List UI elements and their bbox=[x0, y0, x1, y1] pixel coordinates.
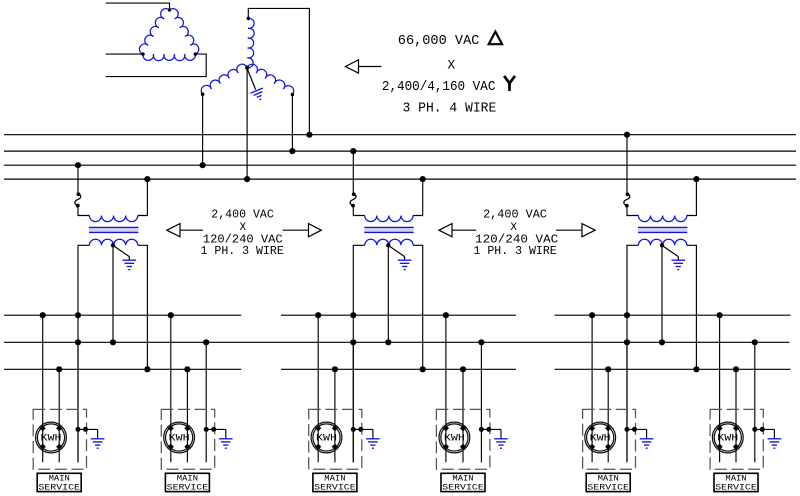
wire: meter 2 line L1 drop bbox=[170, 315, 172, 462]
junction: T3 primary neutral on neutral bus bbox=[693, 176, 699, 182]
wire: 66kV line lead C to delta lower-right bbox=[106, 54, 207, 77]
junction: T3 L2 lead on LV bus L2 bbox=[693, 366, 699, 372]
main service box 5 bbox=[586, 473, 630, 491]
junction: meter 3 L1 on LV bus L1 bbox=[315, 312, 321, 318]
junction: phase B lead on bus C bbox=[200, 162, 206, 168]
ground: wye neutral point earth ground bbox=[250, 88, 266, 102]
svg-text:2,400/4,160 VAC: 2,400/4,160 VAC bbox=[382, 79, 496, 95]
svg-text:2,400 VAC: 2,400 VAC bbox=[483, 208, 547, 221]
transformer wye winding phase B coil bbox=[201, 64, 247, 94]
wire: HV distribution bus phase A bbox=[4, 134, 796, 136]
svg-text:SERVICE: SERVICE bbox=[715, 483, 757, 492]
node: delta lower-right terminal bbox=[194, 52, 197, 55]
fuse cutout T3 bbox=[624, 194, 630, 206]
wire: meter 6 line L2 drop bbox=[735, 369, 737, 462]
wire: wye neutral ground stem bbox=[247, 69, 256, 90]
junction: ground bond at enclosure 2 bbox=[211, 427, 216, 432]
svg-text:1 PH. 3 WIRE: 1 PH. 3 WIRE bbox=[474, 245, 557, 258]
svg-text:SERVICE: SERVICE bbox=[442, 483, 484, 492]
svg-text:X: X bbox=[510, 222, 517, 234]
wire: T3 center tap to LV neutral bus bbox=[661, 245, 663, 342]
node: T3 secondary center tap bbox=[660, 243, 664, 247]
junction: meter 6 neutral on LV neutral bus bbox=[752, 339, 758, 345]
wire: T2 secondary L2 lead down to LV bus L2 bbox=[413, 245, 423, 369]
junction: T2 center tap on LV neutral bus bbox=[385, 339, 391, 345]
junction: meter 6 L2 on LV bus L2 bbox=[733, 366, 739, 372]
svg-text:1 PH. 3 WIRE: 1 PH. 3 WIRE bbox=[201, 245, 284, 258]
wire: T1 secondary L1 lead down to LV buses bbox=[78, 245, 89, 462]
wire: meter 4 line L1 drop bbox=[445, 315, 447, 462]
ground: service entrance ground rod 6 bbox=[768, 438, 782, 440]
meter M5 terminal studs bbox=[589, 425, 595, 431]
wire: meter 3 line L1 drop bbox=[317, 315, 319, 462]
junction: ground bond at enclosure 1 bbox=[83, 427, 88, 432]
junction: ground bond at neutral 1 bbox=[76, 427, 81, 432]
junction: ground bond at enclosure 3 bbox=[358, 427, 363, 432]
svg-text:KWH: KWH bbox=[169, 434, 190, 445]
svg-text:KWH: KWH bbox=[316, 434, 337, 445]
transformer T3 core bbox=[638, 227, 687, 229]
transformer T1 core bbox=[89, 227, 138, 229]
junction: meter 3 L2 on LV bus L2 bbox=[332, 366, 338, 372]
wire: meter 3 neutral-ground bond bbox=[353, 428, 373, 430]
svg-text:MAIN: MAIN bbox=[177, 475, 198, 484]
svg-text:2,400 VAC: 2,400 VAC bbox=[211, 208, 274, 221]
wire: T3 primary phase lead from HV bus bbox=[626, 135, 628, 194]
junction: meter 4 neutral on LV neutral bus bbox=[478, 339, 484, 345]
junction: ground bond at neutral 5 bbox=[625, 427, 630, 432]
svg-text:SERVICE: SERVICE bbox=[587, 483, 629, 492]
transformer wye winding phase C coil bbox=[247, 64, 294, 94]
junction: T1 L1 lead on LV neutral bus bbox=[75, 339, 81, 345]
svg-text:KWH: KWH bbox=[717, 434, 738, 445]
svg-text:SERVICE: SERVICE bbox=[314, 483, 356, 492]
wire: meter 2 neutral-ground bond bbox=[206, 428, 226, 430]
junction: meter 1 L1 on LV bus L1 bbox=[40, 312, 46, 318]
arrow: rating leader left bbox=[167, 224, 180, 237]
wire: meter 5 neutral-ground bond bbox=[627, 428, 647, 430]
wire: T3 secondary L1 lead down to LV buses bbox=[627, 245, 638, 462]
meter M6 terminal studs bbox=[717, 425, 723, 431]
wire: meter 1 neutral drop (shared with transformer lead) bbox=[77, 342, 79, 462]
junction: T3 center tap on LV neutral bus bbox=[659, 339, 665, 345]
transformer T2 secondary winding bbox=[365, 239, 413, 245]
meter enclosure 3 (dashed) bbox=[309, 409, 362, 469]
main service box 4 bbox=[441, 473, 485, 491]
wire: LV bus L1 segment bbox=[4, 314, 241, 316]
wire: T3 secondary L2 lead down to LV bus L2 bbox=[687, 245, 697, 369]
wire: meter 5 line L2 drop bbox=[607, 369, 609, 462]
transformer T2 primary winding bbox=[365, 216, 413, 222]
svg-text:MAIN: MAIN bbox=[49, 475, 70, 484]
meter enclosure 2 (dashed) bbox=[161, 409, 214, 469]
meter M3 terminal studs bbox=[315, 425, 321, 431]
svg-text:MAIN: MAIN bbox=[598, 475, 619, 484]
main service box 1 bbox=[37, 473, 81, 491]
svg-text:MAIN: MAIN bbox=[725, 475, 746, 484]
wire: HV distribution bus phase N (neutral) bbox=[4, 178, 796, 180]
main service box 2 bbox=[165, 473, 209, 491]
ground: service entrance ground rod 5 bbox=[640, 438, 654, 440]
node: delta apex terminal bbox=[168, 8, 171, 11]
wire: wye phase C lead to bus B bbox=[291, 95, 293, 152]
fuse cutout T2 bbox=[350, 194, 356, 206]
meter M2 terminal studs bbox=[168, 425, 174, 431]
junction: meter 5 L1 on LV bus L1 bbox=[589, 312, 595, 318]
junction: ground bond at neutral 3 bbox=[351, 427, 356, 432]
node: wye phase A terminal bbox=[247, 17, 251, 21]
wire: T1 fuse to primary winding bbox=[78, 206, 89, 216]
transformer T3 primary winding bbox=[638, 216, 686, 222]
node: wye center (neutral point) bbox=[245, 66, 249, 70]
arrow: rating leader left bbox=[439, 224, 452, 237]
junction: ground bond at enclosure 6 bbox=[760, 427, 765, 432]
junction: ground bond at enclosure 4 bbox=[486, 427, 491, 432]
node: wye phase B terminal bbox=[201, 92, 205, 96]
junction: T3 L1 lead on LV neutral bus bbox=[624, 339, 630, 345]
meter M1 terminal studs bbox=[40, 425, 46, 431]
transformer wye winding phase A coil bbox=[247, 18, 254, 67]
wire: LV bus L1 segment bbox=[555, 314, 791, 316]
wire: LV bus L2 segment bbox=[555, 368, 791, 370]
ground: T3 secondary center tap ground bbox=[672, 259, 686, 261]
wire: wye neutral lead to neutral bus bbox=[246, 68, 248, 179]
transformer T1 secondary winding bbox=[89, 239, 137, 245]
junction: T1 primary neutral on neutral bus bbox=[144, 176, 150, 182]
junction: T1 L1 lead on LV bus L1 bbox=[75, 312, 81, 318]
wire: T2 fuse to primary winding bbox=[353, 206, 364, 216]
junction: meter 5 L2 on LV bus L2 bbox=[605, 366, 611, 372]
symbol: wye glyph (bold Y) bbox=[504, 76, 515, 91]
wire: T3 primary neutral lead bbox=[687, 179, 697, 215]
junction: T1 L2 lead on LV bus L2 bbox=[144, 366, 150, 372]
node: T1 secondary center tap bbox=[111, 243, 115, 247]
meter enclosure 4 (dashed) bbox=[436, 409, 490, 469]
junction: T3 L1 lead on LV bus L1 bbox=[624, 312, 630, 318]
main service box 3 bbox=[313, 473, 357, 491]
wire: T2 primary phase lead from HV bus bbox=[352, 151, 354, 193]
junction: T1 center tap on LV neutral bus bbox=[110, 339, 116, 345]
wire: T2 primary neutral lead bbox=[413, 179, 423, 215]
meter enclosure 5 (dashed) bbox=[583, 409, 636, 469]
wire: meter 1 line L1 drop bbox=[42, 315, 44, 462]
symbol: delta glyph bbox=[489, 32, 502, 45]
transformer T1 primary winding bbox=[89, 216, 137, 222]
ground: service entrance ground rod 3 bbox=[366, 438, 380, 440]
junction: T2 L2 lead on LV bus L2 bbox=[420, 366, 426, 372]
transformer T2 core bbox=[364, 227, 413, 229]
svg-text:X: X bbox=[239, 222, 246, 234]
svg-text:MAIN: MAIN bbox=[452, 475, 473, 484]
meter M6 ring bbox=[712, 422, 743, 453]
wire: T1 primary neutral lead bbox=[138, 179, 148, 215]
wire: T2 center tap to LV neutral bus bbox=[387, 245, 389, 342]
junction: meter 6 L1 on LV bus L1 bbox=[717, 312, 723, 318]
wire: HV distribution bus phase B bbox=[4, 150, 796, 152]
wire: LV bus L2 segment bbox=[4, 368, 241, 370]
meter M4 terminal studs bbox=[443, 425, 449, 431]
junction: meter 2 L2 on LV bus L2 bbox=[184, 366, 190, 372]
junction: meter 4 L2 on LV bus L2 bbox=[460, 366, 466, 372]
wire: meter 4 neutral drop bbox=[480, 342, 482, 462]
wire: meter 4 neutral-ground bond bbox=[481, 428, 501, 430]
junction: T2 primary tap on HV bus bbox=[350, 148, 356, 154]
wire: LV bus L1 segment bbox=[281, 314, 516, 316]
wire: meter 1 neutral-ground bond bbox=[78, 428, 98, 430]
meter enclosure 6 (dashed) bbox=[710, 409, 763, 469]
wire: T2 secondary L1 lead down to LV buses bbox=[353, 245, 364, 462]
svg-text:SERVICE: SERVICE bbox=[38, 483, 80, 492]
wire: T3 center tap ground stem bbox=[662, 246, 678, 257]
junction: ground bond at neutral 2 bbox=[204, 427, 209, 432]
arrow: rating leader right bbox=[283, 229, 309, 231]
junction: phase C lead on bus B bbox=[289, 148, 295, 154]
wire: T1 secondary L2 lead down to LV bus L2 bbox=[138, 245, 148, 369]
wire: meter 6 neutral drop bbox=[754, 342, 756, 462]
wire: meter 3 neutral drop (shared with transformer lead) bbox=[352, 342, 354, 462]
wire: LV bus L2 segment bbox=[281, 368, 516, 370]
wire: 66kV line lead A to delta apex bbox=[106, 3, 170, 10]
meter M3 ring bbox=[311, 422, 342, 453]
node: T2 secondary center tap bbox=[386, 243, 390, 247]
junction: T1 primary tap on HV bus bbox=[75, 162, 81, 168]
wire: T2 center tap ground stem bbox=[389, 246, 405, 257]
wire: wye phase A lead to bus A bbox=[248, 8, 309, 134]
junction: T2 L1 lead on LV bus L1 bbox=[350, 312, 356, 318]
wire: meter 6 neutral-ground bond bbox=[755, 428, 775, 430]
junction: ground bond at neutral 6 bbox=[752, 427, 757, 432]
junction: meter 2 L1 on LV bus L1 bbox=[168, 312, 174, 318]
junction: T2 L1 lead on LV neutral bus bbox=[350, 339, 356, 345]
wire: T3 fuse to primary winding bbox=[627, 206, 638, 216]
wire: wye phase B lead to bus C bbox=[202, 94, 204, 165]
wire: meter 2 line L2 drop bbox=[186, 369, 188, 462]
meter M1 ring bbox=[36, 422, 67, 453]
ground: service entrance ground rod 1 bbox=[91, 438, 105, 440]
meter M2 ring bbox=[164, 422, 195, 453]
junction: ground bond at enclosure 5 bbox=[632, 427, 637, 432]
wire: HV distribution bus phase C bbox=[4, 164, 796, 166]
ground: T2 secondary center tap ground bbox=[398, 259, 412, 261]
transformer T3 secondary winding bbox=[638, 239, 686, 245]
wire: LV bus neutral (full width) bbox=[4, 341, 790, 343]
wire: meter 2 neutral drop bbox=[205, 342, 207, 462]
meter M5 ring bbox=[585, 422, 616, 453]
node: wye phase C terminal bbox=[291, 93, 295, 97]
svg-text:MAIN: MAIN bbox=[324, 475, 345, 484]
junction: meter 1 L2 on LV bus L2 bbox=[56, 366, 62, 372]
fuse cutout T1 bbox=[75, 194, 81, 206]
wire: T1 primary phase lead from HV bus bbox=[77, 165, 79, 193]
transformer delta winding (66,000 VAC primary) bbox=[139, 9, 198, 61]
wire: meter 3 line L2 drop bbox=[334, 369, 336, 462]
junction: T2 primary neutral on neutral bus bbox=[420, 176, 426, 182]
meter M4 ring bbox=[439, 422, 470, 453]
main service box 6 bbox=[714, 473, 758, 491]
wire: 66kV line lead B to delta lower-left bbox=[106, 53, 143, 55]
svg-text:KWH: KWH bbox=[590, 434, 611, 445]
junction: meter 4 L1 on LV bus L1 bbox=[443, 312, 449, 318]
ground: service entrance ground rod 4 bbox=[494, 438, 508, 440]
wire: T1 center tap to LV neutral bus bbox=[112, 245, 114, 342]
junction: meter 2 neutral on LV neutral bus bbox=[203, 339, 209, 345]
svg-text:3 PH. 4 WIRE: 3 PH. 4 WIRE bbox=[403, 101, 497, 117]
ground: service entrance ground rod 2 bbox=[219, 438, 233, 440]
junction: ground bond at neutral 4 bbox=[479, 427, 484, 432]
svg-text:66,000 VAC: 66,000 VAC bbox=[398, 33, 480, 49]
arrow: HV rating leader bbox=[345, 60, 358, 73]
wire: meter 6 line L1 drop bbox=[719, 315, 721, 462]
svg-text:KWH: KWH bbox=[41, 434, 62, 445]
svg-text:SERVICE: SERVICE bbox=[167, 483, 209, 492]
meter enclosure 1 (dashed) bbox=[33, 409, 86, 469]
wire: meter 5 line L1 drop bbox=[591, 315, 593, 462]
junction: wye neutral on neutral bus bbox=[244, 176, 250, 182]
node: delta lower-left terminal bbox=[141, 52, 144, 55]
svg-text:KWH: KWH bbox=[444, 434, 465, 445]
ground: T1 secondary center tap ground bbox=[123, 259, 137, 261]
wire: meter 4 line L2 drop bbox=[462, 369, 464, 462]
arrow: rating leader right bbox=[556, 229, 582, 231]
wire: meter 5 neutral drop (shared with transformer lead) bbox=[626, 342, 628, 462]
junction: T3 primary tap on HV bus bbox=[624, 132, 630, 138]
svg-text:X: X bbox=[447, 57, 455, 72]
wire: meter 1 line L2 drop bbox=[58, 369, 60, 462]
wire: T1 center tap ground stem bbox=[113, 246, 129, 257]
junction: phase A lead on bus A bbox=[306, 132, 312, 138]
